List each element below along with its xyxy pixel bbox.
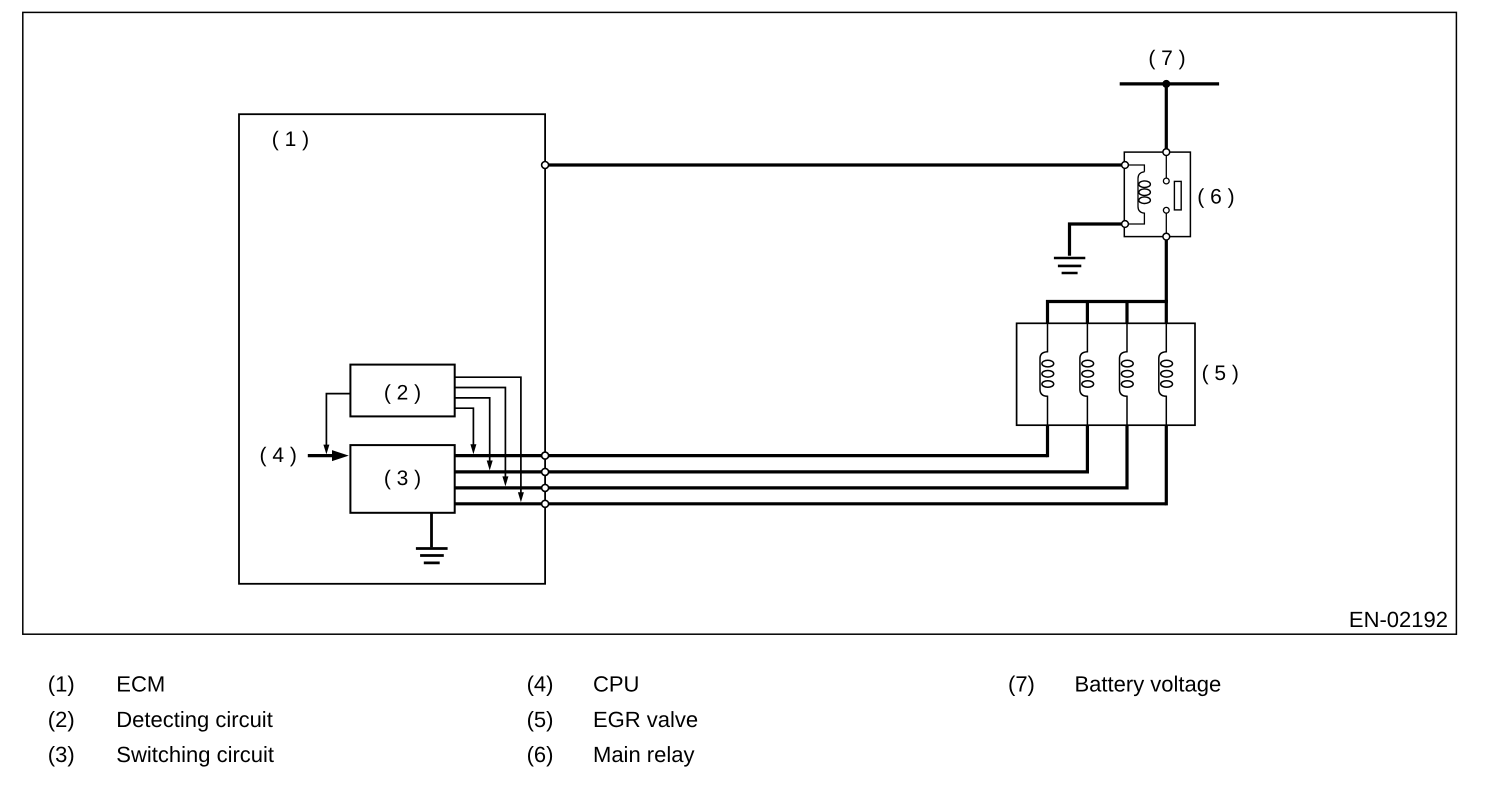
svg-text:CPU: CPU	[593, 671, 639, 696]
svg-text:( 5 ): ( 5 )	[1202, 362, 1239, 385]
svg-text:ECM: ECM	[116, 671, 165, 696]
svg-text:Battery voltage: Battery voltage	[1075, 671, 1222, 696]
svg-text:(1): (1)	[48, 671, 75, 696]
svg-text:(7): (7)	[1008, 671, 1035, 696]
svg-text:Main relay: Main relay	[593, 742, 694, 767]
svg-text:( 7 ): ( 7 )	[1148, 47, 1185, 70]
svg-text:(5): (5)	[527, 707, 554, 732]
svg-text:( 3 ): ( 3 )	[384, 467, 421, 490]
svg-text:(6): (6)	[527, 742, 554, 767]
svg-text:( 1 ): ( 1 )	[272, 128, 309, 151]
svg-text:( 4 ): ( 4 )	[260, 444, 297, 467]
svg-text:EGR valve: EGR valve	[593, 707, 698, 732]
svg-text:(4): (4)	[527, 671, 554, 696]
svg-text:(2): (2)	[48, 707, 75, 732]
svg-text:(3): (3)	[48, 742, 75, 767]
svg-text:EN-02192: EN-02192	[1349, 607, 1448, 632]
svg-text:( 2 ): ( 2 )	[384, 382, 421, 405]
svg-text:Detecting circuit: Detecting circuit	[116, 707, 273, 732]
svg-text:Switching circuit: Switching circuit	[116, 742, 274, 767]
svg-text:( 6 ): ( 6 )	[1197, 185, 1234, 208]
